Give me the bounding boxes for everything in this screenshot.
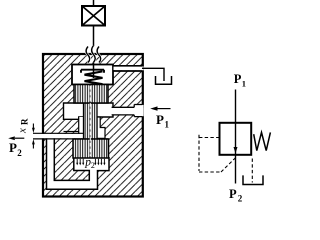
svg-text:P: P bbox=[229, 187, 237, 201]
svg-text:R: R bbox=[20, 118, 30, 125]
svg-text:P: P bbox=[234, 72, 242, 86]
svg-text:1: 1 bbox=[165, 120, 170, 130]
svg-text:P: P bbox=[9, 140, 17, 155]
svg-text:2: 2 bbox=[238, 193, 243, 202]
svg-text:x: x bbox=[17, 128, 29, 134]
svg-text:1: 1 bbox=[242, 78, 246, 88]
svg-text:2: 2 bbox=[17, 148, 22, 158]
svg-text:2: 2 bbox=[91, 161, 95, 170]
svg-text:P: P bbox=[156, 112, 164, 127]
